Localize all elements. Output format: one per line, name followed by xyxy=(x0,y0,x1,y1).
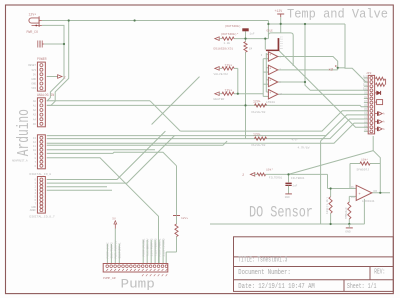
svg-text:DS18S20(X3): DS18S20(X3) xyxy=(214,47,234,51)
svg-text:1uF: 1uF xyxy=(292,184,297,187)
svg-text:DIGITAL_IO_8: DIGITAL_IO_8 xyxy=(30,173,52,176)
svg-text:PUMP_FLOW1: PUMP_FLOW1 xyxy=(143,238,146,256)
svg-text:11V/PUMP_2: 11V/PUMP_2 xyxy=(150,238,154,256)
svg-text:12V+: 12V+ xyxy=(181,217,188,220)
svg-text:DO: DO xyxy=(374,190,378,193)
svg-text:FILTER01: FILTER01 xyxy=(269,176,283,179)
svg-text:13: 13 xyxy=(33,137,37,140)
svg-text:8: 8 xyxy=(34,157,36,160)
svg-text:A3: A3 xyxy=(33,114,37,117)
svg-text:A: A xyxy=(383,113,385,116)
svg-text:10k*: 10k* xyxy=(266,167,273,171)
svg-text:ANALOG IN: ANALOG IN xyxy=(37,93,54,97)
svg-text:3: 3 xyxy=(261,54,263,57)
svg-text:DO Sensor: DO Sensor xyxy=(249,204,313,222)
svg-text:+: + xyxy=(269,91,271,95)
svg-text:D10: D10 xyxy=(363,88,368,91)
svg-text:VALVE/O2: VALVE/O2 xyxy=(251,110,266,114)
svg-text:A1: A1 xyxy=(33,105,37,108)
svg-text:A: A xyxy=(383,121,385,124)
svg-text:LMC6041: LMC6041 xyxy=(362,200,375,203)
svg-text:D11: D11 xyxy=(363,84,368,87)
svg-text:D13: D13 xyxy=(363,75,368,78)
svg-text:IN-: IN- xyxy=(351,186,356,189)
svg-text:6: 6 xyxy=(34,165,36,168)
svg-text:Date: 12/19/11 10:47 AM: Date: 12/19/11 10:47 AM xyxy=(238,281,314,290)
svg-text:12: 12 xyxy=(33,141,37,144)
svg-text:VIN: VIN xyxy=(31,87,36,90)
svg-text:DIGITAL_IO_0_7: DIGITAL_IO_0_7 xyxy=(30,216,55,219)
svg-text:TLC_GND_5V: TLC_GND_5V xyxy=(147,238,150,256)
svg-text:GND: GND xyxy=(345,230,351,233)
svg-text:VALVE/O2: VALVE/O2 xyxy=(214,72,229,76)
svg-text:VALVE/O2: VALVE/O2 xyxy=(251,143,266,147)
svg-text:2: 2 xyxy=(242,173,244,177)
svg-text:Pump: Pump xyxy=(121,278,155,292)
svg-text:HEATER: HEATER xyxy=(214,98,225,101)
svg-text:+: + xyxy=(269,67,271,71)
svg-text:10: 10 xyxy=(33,149,37,152)
svg-text:ADAFRUIT_A: ADAFRUIT_A xyxy=(12,160,28,163)
svg-text:10k^: 10k^ xyxy=(361,157,368,161)
svg-text:TMM04uF: TMM04uF xyxy=(345,207,348,219)
svg-text:AREF: AREF xyxy=(30,209,37,212)
svg-text:A2: A2 xyxy=(33,109,37,112)
svg-text:1.0k: 1.0k xyxy=(224,41,231,45)
svg-text:Arduino: Arduino xyxy=(15,109,34,156)
svg-text:9: 9 xyxy=(34,153,36,156)
svg-text:T12V/GND_5: T12V/GND_5 xyxy=(153,238,157,256)
svg-text:470*: 470* xyxy=(292,138,299,142)
svg-text:212V/5VGND: 212V/5VGND xyxy=(161,238,165,256)
svg-text:+: + xyxy=(269,53,271,57)
svg-text:+12V: +12V xyxy=(275,9,283,13)
svg-text:IN+: IN+ xyxy=(351,196,356,199)
svg-text:PUMP_PWR_1: PUMP_PWR_1 xyxy=(158,238,161,256)
svg-text:12V+: 12V+ xyxy=(225,63,233,67)
svg-text:x2: x2 xyxy=(329,68,334,72)
svg-text:100k(1,0k): 100k(1,0k) xyxy=(325,197,329,214)
svg-text:12V+: 12V+ xyxy=(225,89,233,93)
svg-text:GNDPUMP_1: GNDPUMP_1 xyxy=(119,242,122,258)
svg-text:LM348: LM348 xyxy=(266,101,275,104)
svg-text:PWR_CO: PWR_CO xyxy=(27,30,39,34)
svg-text:FILTER01: FILTER01 xyxy=(291,177,305,180)
svg-text:GND: GND xyxy=(31,83,36,86)
svg-text:12V+: 12V+ xyxy=(253,133,261,137)
svg-text:PWM_PUMP5V: PWM_PUMP5V xyxy=(115,240,118,258)
svg-text:(OUTSIDE): (OUTSIDE) xyxy=(225,24,241,28)
svg-text:Document Number:: Document Number: xyxy=(238,267,290,276)
svg-text:4.7K/1W: 4.7K/1W xyxy=(298,146,310,150)
svg-text:12V+: 12V+ xyxy=(253,99,261,103)
svg-text:A0: A0 xyxy=(33,100,37,103)
svg-text:+: + xyxy=(269,79,271,83)
svg-text:11: 11 xyxy=(33,145,37,148)
svg-text:A5: A5 xyxy=(33,123,37,126)
svg-text:GND: GND xyxy=(31,78,36,81)
svg-text:3A: 3A xyxy=(280,47,283,50)
svg-text:POWER: POWER xyxy=(37,57,47,61)
svg-text:PUMP+5VDC: PUMP+5VDC xyxy=(107,242,110,258)
svg-text:2: 2 xyxy=(64,76,66,80)
svg-text:PUMP_GR: PUMP_GR xyxy=(103,277,116,280)
svg-text:5FW997J: 5FW997J xyxy=(357,169,370,172)
svg-text:REV:: REV: xyxy=(374,268,385,276)
svg-text:TITLE: Tshesldv1.3: TITLE: Tshesldv1.3 xyxy=(238,256,287,264)
svg-text:G5LE: G5LE xyxy=(267,30,274,33)
svg-text:A4: A4 xyxy=(33,118,37,121)
svg-text:5V: 5V xyxy=(33,73,37,76)
svg-text:1uF: 1uF xyxy=(250,33,255,36)
svg-text:GND: GND xyxy=(285,196,290,199)
svg-text:Temp and Valve: Temp and Valve xyxy=(287,7,388,22)
svg-text:5V: 5V xyxy=(112,218,116,221)
svg-text:GND/PUMP2: GND/PUMP2 xyxy=(110,242,114,258)
svg-text:12V+: 12V+ xyxy=(29,13,37,17)
svg-text:D12: D12 xyxy=(363,79,368,82)
svg-text:1M: 1M xyxy=(249,47,253,50)
svg-text:A: A xyxy=(383,128,385,131)
svg-text:Sheet: 1/1: Sheet: 1/1 xyxy=(347,282,377,290)
svg-text:7: 7 xyxy=(34,161,36,164)
svg-text:3V3: 3V3 xyxy=(31,69,36,72)
svg-text:RESET: RESET xyxy=(28,64,36,67)
svg-text:(OUTSIDE)*: (OUTSIDE)* xyxy=(221,32,239,36)
svg-text:+: + xyxy=(358,193,361,197)
